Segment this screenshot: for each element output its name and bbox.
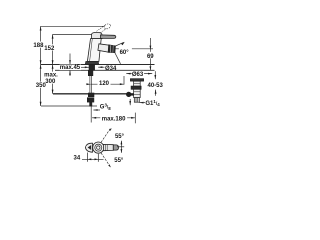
pop-up rod horizontal line [53,93,127,95]
body mid circle [95,144,102,151]
reference line lever pivot level [53,33,93,35]
svg-text:Ø63: Ø63 [132,72,144,78]
angle arc vertical [120,141,122,153]
60deg horizontal ray [116,48,154,50]
deck bottom line [55,69,155,71]
arrow dia63 right [148,73,152,75]
dimension 152 line [52,34,54,64]
drain tailpipe G1 1/4 [134,98,139,103]
arrow max45 leader right [85,66,89,68]
arrow 152 top [52,34,54,38]
nose dark arrow [88,145,92,150]
base escutcheon [85,61,99,64]
leader line max45 [81,66,89,68]
arrow 55 down [108,164,111,167]
plan handle [103,144,113,150]
arrow 69 bottom [150,66,152,70]
60deg up ray [116,42,124,46]
text 152 [45,44,55,50]
text 34 [72,154,81,160]
dimension 350 line [40,65,42,107]
svg-text:max.45: max.45 [60,65,81,71]
drain neck [134,81,141,86]
drain nut [131,86,141,89]
below-deck faucet parts [87,65,94,107]
svg-text:188: 188 [33,43,44,49]
arrow dia63 left [126,73,130,75]
arrow dia34 leader left [98,66,102,68]
svg-text:34: 34 [74,156,81,162]
svg-text:55°: 55° [115,134,125,140]
pop-up lever ball [126,92,131,97]
hose end line [41,105,97,107]
leader line G1-1/4 [139,102,145,104]
spout nose [85,143,92,152]
svg-text:60°: 60° [120,50,130,56]
svg-text:152: 152 [44,46,55,52]
arrow 188 top [40,26,42,30]
text max300 [46,72,57,84]
text max45 [60,65,82,71]
dim 34 line [82,158,104,160]
dim 120 line [91,83,124,85]
text 350 [36,82,46,88]
leader line dia34 [98,66,104,68]
max180 right extension [134,113,136,124]
plan handle tip [113,145,118,150]
text 188 [34,42,44,48]
dim 120 right extension [123,76,125,85]
body shade line [90,39,93,62]
arrow max45 down [69,60,71,64]
dim 34 right extension [97,154,99,162]
text max180 [100,115,127,121]
lever cap [92,32,103,38]
arrow 34 right [95,158,99,160]
dim 63 line [126,73,152,75]
arrow max180 right [131,117,135,119]
dim 40-53 lower seg [155,90,157,96]
arrow 120 left [86,83,90,85]
dim 69 vertical line [149,38,151,50]
arrow 60deg up ray [121,42,125,45]
max45 below-deck line [69,71,71,77]
55deg up ray [101,129,110,143]
arrow 40-53 up [155,90,157,94]
55deg down ray [101,153,111,167]
arrow 152 bottom [52,60,54,64]
arrow arc top [121,141,123,145]
deck top line [41,64,155,66]
faucet tail extension [90,106,92,123]
svg-text:max.180: max.180 [102,116,126,122]
leader line G3/8 [93,109,100,111]
text 60deg [119,48,132,55]
text dia63 [132,71,144,77]
arrow G3/8 leader [93,109,97,111]
arrow 40-53 down [154,75,156,79]
shank through deck [89,65,95,71]
handle axis tick [117,146,124,148]
arrow 120 right [120,83,124,85]
svg-text:120: 120 [99,81,110,87]
arrow 34 left [88,158,92,160]
rod connector block [88,93,94,97]
mounting nut [88,70,93,75]
dimension max300 line [52,65,54,94]
60deg down ray [115,52,121,64]
arrow 350 bottom [40,102,42,106]
text 69 [146,52,155,59]
dim max180 line [92,117,135,119]
arrow 188 bottom [40,60,42,64]
body inner circle [97,146,100,149]
arrow 55 up [109,128,112,131]
aerator [108,45,115,53]
arrow 300 top [52,65,54,69]
arrow max180 left [92,117,96,119]
dimension 188 line [40,26,42,64]
faucet body [87,39,101,62]
max45 vertical line [69,54,71,65]
drain body [134,89,141,97]
arrow max45 up below deck [69,71,71,75]
svg-text:Ø34: Ø34 [105,66,117,72]
lever rod [101,35,116,39]
body outer circle [93,142,104,153]
tail pipe double line [89,76,91,94]
drain flange [130,79,143,81]
arrow arc bottom [121,149,123,153]
dashed lever raised [97,23,112,34]
arrow G1-1/4 leader [139,102,143,104]
svg-text:69: 69 [147,54,154,60]
svg-text:55°: 55° [114,158,124,164]
arrow small down right of drain [129,101,131,105]
top reference line (handle raised level) [41,25,104,27]
svg-text:300: 300 [45,79,56,85]
arrow 350 top [40,65,42,69]
dim 40-53 upper seg [154,71,156,79]
svg-text:max.: max. [44,73,58,79]
arrow 300 bottom [52,90,54,94]
svg-text:40-53: 40-53 [148,83,164,89]
threaded tail G3/8 [90,102,92,106]
text 120 [98,79,111,85]
lower nut [87,98,94,102]
dim 34 left extension [87,153,89,162]
small arrow line right of drain [129,99,131,105]
arrow 69 top [150,46,152,50]
spout [98,44,110,53]
